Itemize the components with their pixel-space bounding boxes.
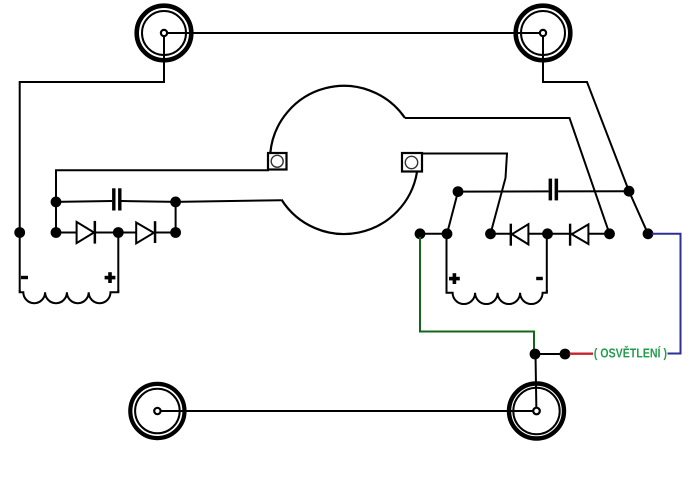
capacitor C1 left plate [112,188,115,210]
diode D4 [569,224,589,246]
node I (right diode row left) [485,228,496,239]
brush terminal left (square) [268,153,287,170]
lamp L3 bottom-left [130,384,184,438]
diode D3 [510,224,529,246]
wire right cap row left part [458,190,549,192]
wire motor right-bottom bend to node I [421,154,507,234]
node K (diode row mid right) [542,228,553,239]
wire node J to node H [420,233,447,235]
lamp L1 top-left [137,6,192,61]
motor M1 body (lower arc) [281,172,417,234]
wire motor right-top with diagonal to node K [405,118,610,234]
motor M1 body (upper arc) [270,86,405,153]
node L (diode row right end) [604,228,615,239]
wire L1 down to left rail [20,36,164,292]
wire coil T2 left riser [446,234,448,293]
coil T1 (left generator winding) [20,290,119,303]
diode D2 [136,221,156,243]
label T1 plus [105,272,116,283]
wire node O down to lamp L4 [535,354,538,411]
wire node O to node P [535,353,565,355]
node H (coil T2 left top) [442,228,453,239]
node F (diode row right left-ckt) [170,227,181,238]
wire top rail L1 to L2 [164,32,543,34]
node C (riser / cap row) [51,197,62,208]
wire coil T1 plus riser [117,233,119,293]
wire blue (to lighting connector) [652,234,681,354]
wire left capacitor row [56,200,112,203]
wire bottom rail L3 to L4 [157,410,536,412]
wire left diode row [56,232,176,234]
label T1 minus [21,276,28,279]
node A (left rail / diode row) [14,227,25,238]
node D (diode midpoint left) [113,227,124,238]
capacitor C2 right plate [555,179,559,201]
node E (cap row right left-ckt) [170,197,181,208]
wire red (lighting feed) [570,353,594,355]
wire right diode row [491,233,610,235]
coil T2 (right generator winding) [447,290,547,304]
wire D2 to C1 riser [175,202,177,233]
node B (riser / diode row) [51,227,62,238]
wire green (dynamo to lighting tap) [420,237,534,351]
wire left terminal to node B riser [56,170,269,232]
wire coil T2 right riser [546,234,548,293]
lamp L4 bottom-right [509,384,564,439]
wire node G diagonal down to node H [447,192,458,234]
diode D1 [77,221,97,244]
node P (red takeoff) [560,349,571,360]
node J (green takeoff) [415,228,426,239]
wire C1 to motor arc [122,200,282,202]
capacitor C2 left plate [549,179,553,201]
node G (right cap row left) [453,186,464,197]
brush terminal right (square) [402,153,422,172]
wire L2 down and diagonal to node F [543,36,648,234]
label T2 minus [536,277,543,280]
node N (blue takeoff) [643,228,654,239]
label T2 plus [449,273,460,284]
label OSVETLENI [594,346,666,360]
node O (lamp riser / green) [530,349,541,360]
capacitor C1 right plate [118,188,121,210]
lamp L2 top-right [516,6,571,61]
wire right cap row right part [558,190,629,192]
node M (cap row right end) [624,186,635,197]
